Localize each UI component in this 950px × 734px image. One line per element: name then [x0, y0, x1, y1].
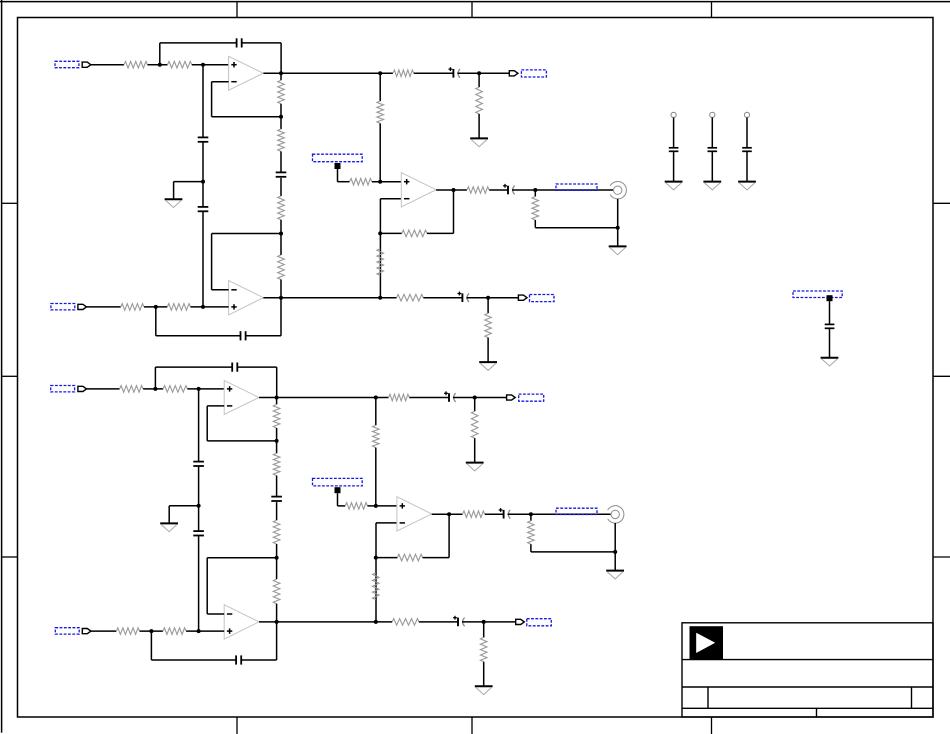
resistor R19 — [273, 520, 280, 544]
zone tick top — [471, 2, 473, 18]
wire gnd stub drop — [168, 506, 170, 524]
zone tick right — [933, 202, 950, 204]
resistor R21 — [116, 628, 139, 635]
op-amp U1A — [229, 56, 264, 90]
junction node L1 — [477, 71, 481, 75]
wire fbB bottom right — [241, 659, 276, 661]
junction node A2 — [153, 387, 157, 391]
capacitor C11 — [236, 655, 241, 664]
ground GND11 — [665, 182, 683, 190]
ground GND6 — [160, 523, 178, 531]
wire vref drop — [829, 301, 831, 323]
junction node K1 — [616, 226, 620, 230]
wire U1B inv run — [212, 233, 281, 235]
junction node F2 — [374, 504, 378, 508]
polarized capacitor C13 — [444, 391, 456, 402]
junction node H2 — [374, 620, 378, 624]
resistor R16 — [163, 386, 187, 393]
wire fbB fall — [155, 307, 157, 336]
wire U1B inv rise — [211, 234, 213, 290]
wire fbA top run — [160, 42, 237, 44]
wire IN4 feed — [91, 630, 117, 632]
zone tick bottom — [236, 717, 238, 734]
wire fbB bottom run — [156, 335, 241, 337]
BNC connector J2 — [608, 506, 624, 523]
wire IN1 feed — [91, 64, 124, 66]
zone tick left — [2, 375, 18, 377]
polarized capacitor C14 — [453, 616, 465, 627]
wire mid rail centre — [202, 143, 204, 207]
wire gnd stub run — [174, 181, 203, 183]
wire rail seg7 — [280, 280, 282, 298]
wire C6-BNC — [512, 189, 613, 191]
resistor R4 — [278, 129, 285, 151]
wire U2A inv stub — [380, 198, 401, 200]
resistor R13 — [467, 187, 489, 194]
wire mid rail centre — [198, 467, 200, 531]
net label net VOCM — [313, 478, 363, 486]
junction node J1 — [533, 188, 537, 192]
sheet outer border left — [1, 0, 3, 733]
wire U1A inv drop — [211, 82, 213, 117]
resistor R15 — [120, 386, 144, 393]
op-amp U3A — [224, 381, 259, 415]
wire R13-C6 — [489, 189, 508, 191]
wire term gnd run — [535, 227, 617, 229]
wire decouple C15 tail — [746, 152, 748, 182]
polarized capacitor C6 — [503, 184, 514, 195]
wire termR tail — [530, 544, 532, 552]
port IN4 — [82, 629, 91, 634]
junction node D1 — [201, 305, 205, 309]
junction node I1 — [452, 188, 456, 192]
junction node M1 — [486, 296, 490, 300]
wire U3A inv run — [207, 440, 276, 442]
wire R15-R16 — [143, 388, 163, 390]
wire R17-C8 — [423, 297, 462, 299]
junction node outB1 — [279, 296, 283, 300]
wire R29-C13 — [409, 397, 449, 399]
wire bnc shield drop — [614, 523, 616, 552]
op-amp U2A — [401, 173, 436, 207]
wire decouple C14 lead — [711, 118, 713, 148]
wire gnd stub run — [169, 505, 198, 507]
wire IN3 feed — [86, 388, 119, 390]
capacitor C15 — [742, 148, 752, 152]
wire U1B output — [263, 297, 396, 299]
wire rail seg3 — [280, 151, 282, 172]
junction node outA2 — [275, 396, 279, 400]
wire vocm drop — [337, 169, 339, 182]
net label handle VREF — [827, 295, 833, 301]
wire decouple C14 tail — [711, 152, 713, 182]
junction node fbB2 — [275, 556, 279, 560]
wire div rail to plus — [375, 448, 377, 506]
resistor R5 — [278, 196, 285, 220]
wire fbM left — [376, 557, 397, 559]
resistor R30 — [471, 411, 478, 438]
wire gnd stub drop — [173, 182, 175, 200]
wire termR drop — [530, 514, 532, 521]
wire shuntR2 tail — [487, 338, 489, 362]
resistor R7 — [121, 304, 144, 311]
resistor R10 — [377, 249, 384, 276]
resistor R26 — [345, 503, 367, 510]
junction node E2 — [374, 396, 378, 400]
zone tick bottom — [711, 717, 713, 734]
wire R1-R2 — [148, 64, 168, 66]
wire shuntR2 drop — [483, 622, 485, 638]
wire shuntR1 drop — [474, 398, 476, 412]
ground GND3 — [470, 138, 488, 146]
wire fbM rise — [448, 514, 450, 557]
junction node K2 — [613, 550, 617, 554]
wire R2-U1A — [192, 64, 229, 66]
wire rail seg1 — [276, 398, 278, 405]
wire shuntR2 drop — [487, 298, 489, 314]
wire div rail lower — [379, 199, 381, 298]
wire U1A output — [263, 72, 393, 74]
port OUT3 — [507, 395, 516, 400]
resistor R29 — [389, 394, 410, 401]
resistor R11 — [402, 230, 427, 237]
wire fbM right — [423, 557, 450, 559]
port OUT1 — [509, 71, 518, 76]
sheet outer border top — [0, 1, 950, 3]
capacitor C3 — [198, 207, 209, 211]
wire R8-U1B — [191, 306, 229, 308]
wire rail seg4 — [276, 502, 278, 520]
junction node B2 — [197, 387, 201, 391]
wire fbA rise — [159, 43, 161, 65]
unconnected pin pin P1 — [671, 112, 676, 117]
capacitor C14 — [708, 148, 718, 152]
net label net IN1 — [55, 61, 79, 67]
wire R21-R22 — [140, 630, 163, 632]
wire vocm drop — [337, 493, 339, 506]
net label net VREF — [793, 291, 842, 298]
resistor R31 — [392, 619, 419, 626]
wire rail seg1 — [280, 73, 282, 80]
wire R12-U2A — [372, 181, 401, 183]
net label net OUT1 — [521, 70, 546, 77]
net label net VOCM — [313, 154, 363, 162]
wire decouple C13 lead — [673, 118, 675, 148]
wire rail seg2 — [280, 104, 282, 129]
wire U3A inv stub — [207, 405, 224, 407]
capacitor C10 — [271, 497, 282, 501]
unconnected pin pin P3 — [744, 112, 749, 117]
wire fbA drop — [276, 367, 278, 397]
company logo — [690, 626, 724, 659]
resistor R18 — [485, 313, 492, 337]
wire fbM rise — [453, 190, 455, 233]
wire bnc gnd tail — [617, 228, 619, 247]
junction node B1 — [201, 63, 205, 67]
zone tick top — [236, 2, 238, 18]
wire IN2 feed — [86, 306, 120, 308]
junction node E1 — [378, 71, 382, 75]
wire fbA drop — [280, 43, 282, 73]
resistor R12 — [350, 178, 372, 185]
wire C12-BNC — [508, 513, 611, 515]
net label net IN4 — [55, 628, 79, 634]
wire fbB bottom run — [151, 659, 236, 661]
wire U3B inv rise — [206, 558, 208, 614]
wire fbA top right — [237, 366, 276, 368]
wire fbB fall — [150, 631, 152, 660]
wire rail seg6 — [280, 234, 282, 255]
resistor R23 — [373, 425, 380, 447]
wire R27-C12 — [485, 513, 504, 515]
wire fbM right — [427, 232, 454, 234]
wire mid rail upper — [202, 65, 204, 138]
net label net OUT3 — [519, 394, 544, 401]
wire U1A inv run — [212, 116, 281, 118]
wire fbM left — [380, 232, 401, 234]
port IN2 — [78, 304, 87, 309]
junction node mid2 — [197, 504, 201, 508]
title block frame — [682, 623, 933, 717]
wire term gnd run — [531, 551, 615, 553]
port IN3 — [78, 386, 87, 391]
net label net OUT4 — [527, 619, 552, 626]
resistor R1 — [124, 61, 148, 68]
wire U4A output — [432, 513, 463, 515]
wire div rail upper — [375, 398, 377, 426]
wire U3A output — [259, 397, 389, 399]
op-amp U1B — [229, 281, 264, 315]
wire U3A inv drop — [206, 406, 208, 441]
wire C7-OUT1 — [457, 72, 509, 74]
wire U1A inv stub — [212, 81, 229, 83]
capacitor C2 — [198, 137, 209, 141]
junction node L2 — [473, 396, 477, 400]
capacitor C13 — [669, 148, 679, 152]
wire fbA top right — [242, 42, 281, 44]
wire vocm run — [338, 505, 346, 507]
wire rail seg5 — [276, 544, 278, 558]
capacitor C4 — [276, 172, 287, 176]
net label net VOUT — [556, 184, 597, 190]
wire rail seg3 — [276, 476, 278, 497]
resistor R2 — [168, 61, 192, 68]
resistor R16 — [476, 87, 483, 114]
zone tick left — [2, 556, 18, 558]
net label net IN2 — [51, 304, 75, 310]
wire rail seg4 — [280, 178, 282, 196]
wire U4A inv stub — [376, 522, 397, 524]
wire div rail upper — [379, 73, 381, 101]
wire R26-U4A — [368, 505, 397, 507]
wire bnc gnd tail — [614, 552, 616, 571]
resistor R3 — [278, 80, 285, 104]
resistor R9 — [377, 101, 384, 123]
wire R22-U3B — [186, 630, 224, 632]
resistor R18 — [273, 453, 280, 475]
junction node fbB1 — [279, 232, 283, 236]
resistor R22 — [163, 628, 186, 635]
capacitor C7 — [232, 363, 237, 372]
wire U3B inv stub — [207, 613, 224, 615]
op-amp U4A — [397, 497, 432, 531]
ground GND9 — [475, 686, 493, 694]
junction node G1 — [378, 231, 382, 235]
port IN1 — [82, 62, 91, 67]
ground GND2 — [609, 246, 627, 254]
wire rail seg7 — [276, 604, 278, 622]
wire vref tail — [829, 329, 831, 358]
capacitor C16 — [825, 324, 835, 328]
wire C14-OUT4 — [462, 621, 516, 623]
zone tick left — [2, 202, 18, 204]
wire R15-C7 — [414, 72, 454, 74]
zone tick right — [933, 375, 950, 377]
wire fbB bottom right — [246, 335, 281, 337]
junction node A1 — [158, 63, 162, 67]
junction node H1 — [378, 296, 382, 300]
wire R7-R8 — [144, 306, 167, 308]
unconnected pin pin P2 — [710, 112, 715, 117]
junction node outA1 — [279, 71, 283, 75]
wire U3B inv run — [207, 557, 276, 559]
wire fbB rise to out — [276, 622, 278, 660]
wire decouple C15 lead — [746, 118, 748, 148]
wire mid rail upper — [198, 389, 200, 462]
net label net OUT2 — [530, 295, 555, 302]
junction node I2 — [447, 512, 451, 516]
wire U2A output — [436, 189, 467, 191]
junction node M2 — [482, 620, 486, 624]
capacitor C1 — [237, 38, 242, 47]
wire fbA top run — [155, 366, 232, 368]
junction node fbA1 — [279, 115, 283, 119]
wire termR drop — [534, 190, 536, 197]
junction node C1 — [154, 305, 158, 309]
capacitor C5 — [241, 331, 246, 340]
zone tick top — [711, 2, 713, 18]
wire shuntR2 tail — [483, 662, 485, 686]
resistor R28 — [528, 521, 535, 545]
wire U1B inv stub — [212, 289, 229, 291]
resistor R17 — [273, 404, 280, 428]
wire div rail lower — [375, 523, 377, 622]
net label handle VOCM — [335, 163, 341, 169]
wire fbB rise to out — [280, 298, 282, 336]
resistor R8 — [167, 304, 190, 311]
capacitor C9 — [193, 531, 204, 535]
resistor R6 — [278, 255, 285, 280]
capacitor C8 — [193, 462, 204, 466]
ground GND14 — [821, 358, 839, 366]
polarized capacitor C12 — [499, 508, 511, 518]
port OUT4 — [516, 619, 525, 624]
net label net VOUT — [556, 508, 597, 514]
wire rail seg2 — [276, 428, 278, 453]
junction node fbA2 — [275, 439, 279, 443]
junction node outB2 — [275, 620, 279, 624]
resistor R32 — [480, 637, 487, 661]
net label handle VOCM — [335, 487, 341, 493]
ground GND12 — [703, 182, 721, 190]
resistor R25 — [397, 554, 422, 561]
op-amp U3B — [224, 605, 259, 639]
port OUT2 — [518, 295, 527, 300]
ground GND8 — [466, 463, 484, 471]
wire C13-OUT3 — [453, 397, 507, 399]
wire U3B output — [259, 621, 392, 623]
wire shuntR1 tail — [478, 114, 480, 138]
wire fbA rise — [154, 367, 156, 389]
wire div rail to plus — [379, 123, 381, 181]
wire decouple C13 tail — [673, 152, 675, 182]
resistor R24 — [373, 573, 380, 600]
wire mid rail lower — [198, 536, 200, 631]
junction node F1 — [378, 180, 382, 184]
resistor R20 — [273, 579, 280, 604]
wire shuntR1 tail — [474, 438, 476, 462]
polarized capacitor C8 — [458, 292, 470, 303]
BNC connector J1 — [610, 182, 626, 199]
junction node mid1 — [201, 180, 205, 184]
wire shuntR1 drop — [478, 73, 480, 87]
wire rail seg6 — [276, 558, 278, 579]
junction node J2 — [529, 512, 533, 516]
ground GND4 — [479, 362, 497, 370]
junction node C2 — [149, 629, 153, 633]
resistor R15 — [393, 70, 414, 77]
junction node D2 — [197, 629, 201, 633]
ground GND7 — [606, 571, 624, 579]
wire rail seg5 — [280, 220, 282, 234]
resistor R14 — [532, 197, 539, 221]
resistor R27 — [463, 511, 485, 518]
wire bnc shield drop — [617, 199, 619, 228]
ground GND1 — [165, 199, 183, 207]
resistor R17 — [397, 294, 424, 301]
wire R16-U3A — [187, 388, 224, 390]
polarized capacitor C7 — [449, 67, 461, 78]
wire R31-C14 — [419, 621, 458, 623]
zone tick right — [933, 556, 950, 558]
junction node G2 — [374, 556, 378, 560]
wire termR tail — [534, 220, 536, 228]
net label net IN3 — [51, 386, 75, 392]
zone tick bottom — [471, 717, 473, 734]
wire C8-OUT2 — [466, 297, 518, 299]
ground GND13 — [738, 182, 756, 190]
wire vocm run — [338, 181, 350, 183]
wire mid rail lower — [202, 212, 204, 307]
